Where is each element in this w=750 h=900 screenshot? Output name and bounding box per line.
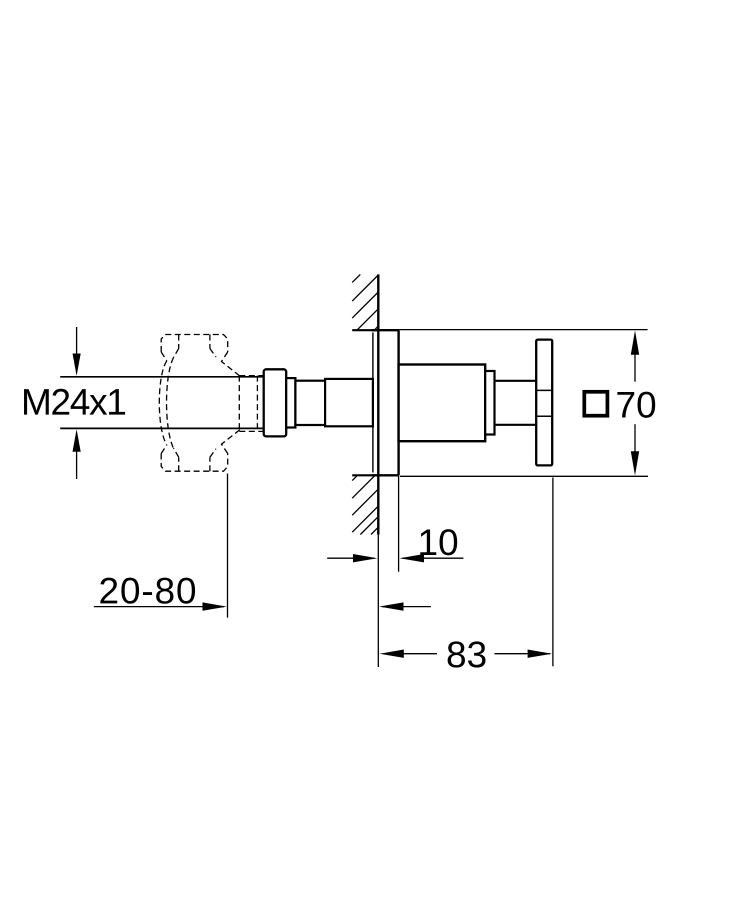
- handle hub seam lines: [536, 390, 552, 416]
- handle stem: [495, 381, 537, 425]
- middle sleeve cylinder: [295, 381, 325, 425]
- dimension 20-80: label: [100, 578, 195, 604]
- concealed valve body (dashed) bottom cap: [161, 445, 228, 471]
- valve neck (dashed): [239, 376, 263, 432]
- escutcheon flange sleeve back edge: [372, 333, 374, 473]
- wall face line: [377, 274, 379, 534]
- dimension 10: right arrow: [400, 554, 464, 562]
- dimension 70: bottom extension line: [400, 475, 648, 477]
- collar step band: [286, 378, 295, 427]
- concealed valve body (dashed) top cap: [161, 335, 228, 361]
- dimension 20-80: extension line from valve body: [227, 474, 229, 618]
- dimension 10: left arrow: [327, 554, 377, 562]
- dimension 83: right arrow: [494, 650, 552, 658]
- dimension 20-80: left arrow and line: [94, 602, 227, 610]
- escutcheon flange plate: [371, 330, 398, 475]
- dimension 70: bottom arrow: [631, 424, 639, 475]
- concealed valve body (dashed) left waist curves: [159, 358, 173, 449]
- dimension 70: label: [617, 392, 655, 418]
- dimension 83: extension line from handle: [552, 478, 554, 667]
- trim collar: [264, 369, 287, 436]
- through-wall cylinder: [325, 379, 373, 426]
- dimension 10: extension line below wall face: [377, 535, 379, 668]
- wall hatching top: [352, 274, 378, 330]
- dimension M24x1: bottom arrow: [73, 429, 81, 479]
- wall hatching bottom: [352, 476, 378, 535]
- housing step ring: [485, 371, 494, 435]
- dimension M24x1: label: [24, 389, 125, 415]
- concealed valve body (dashed) right slants to neck: [222, 352, 241, 454]
- dimension M24x1: top arrow: [73, 327, 81, 376]
- threaded stem M24x1 outline top: [60, 376, 264, 378]
- handle bar: [536, 340, 552, 466]
- dimension 70: square symbol: [584, 392, 607, 416]
- valve trim housing: [399, 365, 486, 442]
- dimension 70: top extension line: [399, 329, 648, 331]
- dimension 20-80: right arrow: [379, 602, 431, 610]
- wall opening top line: [352, 329, 378, 331]
- dimension 10: extension line from flange front: [398, 475, 400, 571]
- dimension 10: label: [420, 529, 457, 555]
- dimension 83: left arrow: [380, 650, 438, 658]
- threaded stem M24x1 outline bottom: [60, 427, 264, 429]
- dimension 70: top arrow: [631, 330, 639, 381]
- wall opening bottom line: [352, 474, 378, 476]
- dimension 83: label: [448, 641, 486, 667]
